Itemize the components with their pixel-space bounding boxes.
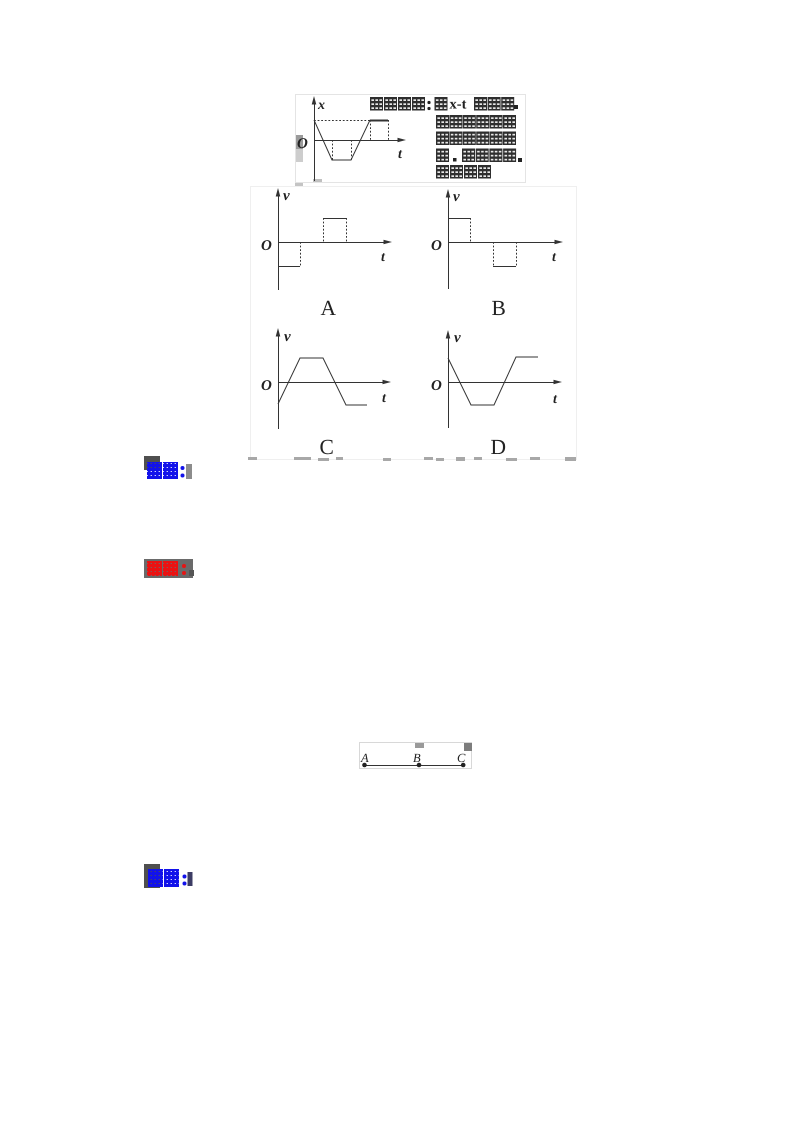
- svg-text:O: O: [261, 378, 272, 394]
- svg-text:O: O: [297, 136, 308, 152]
- svg-text:v: v: [454, 330, 461, 346]
- svg-text:A: A: [321, 296, 337, 320]
- svg-text:B: B: [413, 751, 421, 765]
- svg-text:B: B: [492, 296, 506, 320]
- svg-text:t: t: [553, 392, 558, 407]
- svg-text:C: C: [457, 751, 466, 765]
- svg-text:O: O: [431, 238, 442, 254]
- svg-text:C: C: [320, 435, 334, 459]
- svg-text:O: O: [431, 378, 442, 394]
- svg-text:v: v: [453, 189, 460, 205]
- svg-text:x: x: [317, 98, 325, 113]
- svg-text:t: t: [552, 250, 557, 265]
- svg-text:v: v: [283, 188, 290, 204]
- svg-text:A: A: [360, 751, 369, 765]
- svg-text:x-t: x-t: [450, 97, 467, 113]
- svg-text:D: D: [491, 435, 507, 459]
- svg-text:t: t: [381, 250, 386, 265]
- svg-text:t: t: [398, 147, 403, 162]
- svg-text:v: v: [284, 329, 291, 345]
- svg-text:t: t: [382, 391, 387, 406]
- svg-text:O: O: [261, 238, 272, 254]
